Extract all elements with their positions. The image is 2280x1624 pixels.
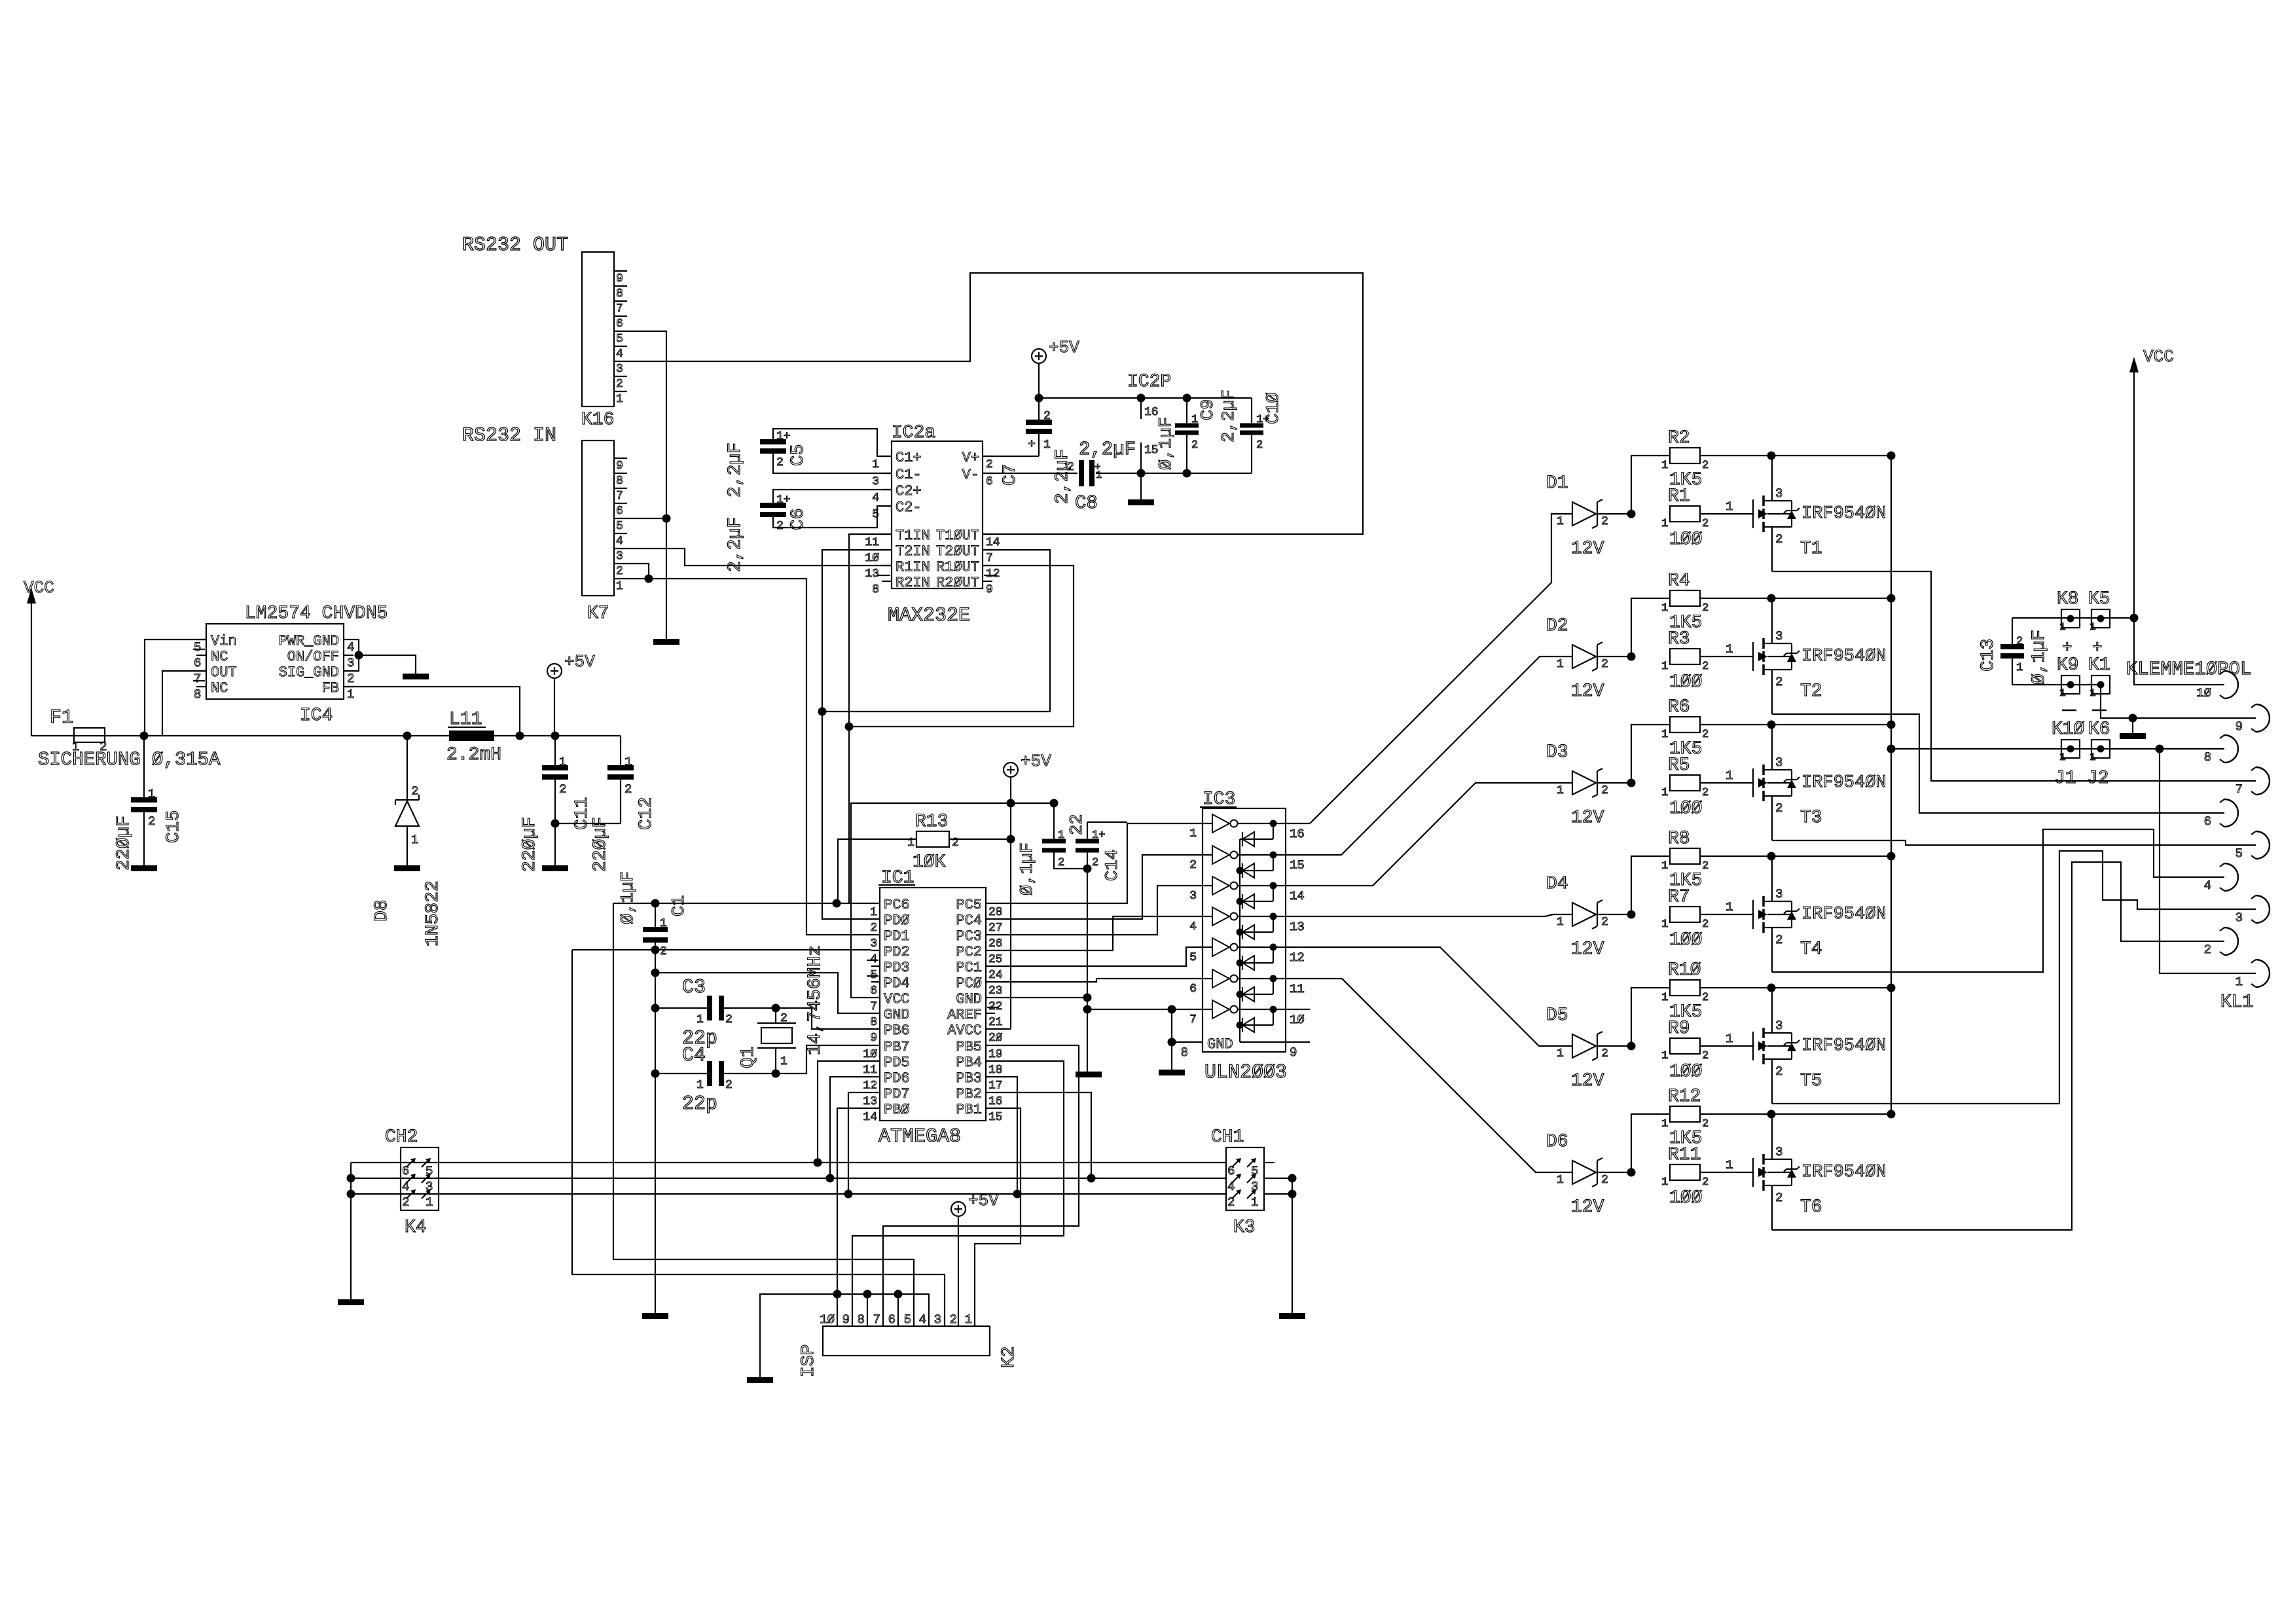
svg-text:R1: R1 bbox=[1668, 486, 1690, 507]
svg-text:1: 1 bbox=[1557, 784, 1564, 797]
svg-text:2,2µF: 2,2µF bbox=[1079, 439, 1136, 460]
wire K7 pin2 jog bbox=[627, 564, 649, 579]
svg-text:2: 2 bbox=[2016, 636, 2023, 648]
svg-text:PD3: PD3 bbox=[884, 960, 910, 976]
svg-text:IC4: IC4 bbox=[300, 706, 333, 726]
svg-text:1: 1 bbox=[660, 917, 667, 930]
inductor L11 2.2mH bbox=[449, 731, 494, 741]
transistor T2 IRF9540N bbox=[1752, 642, 1754, 671]
junction D5 cathode bbox=[1627, 1042, 1636, 1051]
svg-text:4: 4 bbox=[2204, 878, 2211, 893]
svg-text:1: 1 bbox=[1058, 829, 1064, 842]
svg-text:Ø,1µF: Ø,1µF bbox=[1018, 842, 1038, 895]
junction K6 row bbox=[2156, 745, 2164, 753]
svg-text:PB5: PB5 bbox=[956, 1039, 982, 1055]
svg-text:1: 1 bbox=[2059, 687, 2066, 699]
svg-text:2: 2 bbox=[1775, 933, 1782, 947]
IC4 left pins bbox=[196, 639, 206, 640]
svg-text:6: 6 bbox=[616, 505, 623, 518]
svg-text:6: 6 bbox=[888, 1312, 896, 1327]
wire fuse to node bbox=[105, 735, 144, 736]
svg-text:K9: K9 bbox=[2057, 655, 2079, 676]
wire K4 ground drop bbox=[350, 1163, 352, 1299]
junction +5V R13 bbox=[1007, 835, 1015, 844]
svg-text:12V: 12V bbox=[1571, 539, 1604, 559]
svg-text:+5V: +5V bbox=[564, 652, 595, 672]
svg-text:1ØØ: 1ØØ bbox=[1669, 799, 1702, 819]
wire to GND pin8 bbox=[655, 973, 871, 1013]
junction PB3 row bbox=[1013, 1190, 1022, 1199]
svg-text:OUT: OUT bbox=[211, 664, 237, 681]
svg-text:21: 21 bbox=[988, 1016, 1003, 1029]
svg-text:7: 7 bbox=[1189, 1013, 1197, 1026]
ground at IC4 bbox=[403, 674, 429, 679]
svg-text:4: 4 bbox=[616, 535, 623, 548]
svg-text:2: 2 bbox=[1601, 658, 1608, 671]
svg-text:9: 9 bbox=[616, 272, 623, 285]
svg-text:1Ø: 1Ø bbox=[2196, 686, 2211, 700]
wire C8 to GND junction bbox=[1096, 473, 1252, 474]
wire K4 row1 bbox=[351, 1162, 1226, 1163]
svg-text:IRF954ØN: IRF954ØN bbox=[1801, 905, 1887, 924]
svg-text:8: 8 bbox=[2204, 750, 2211, 765]
svg-text:2: 2 bbox=[1227, 1195, 1235, 1210]
svg-text:12V: 12V bbox=[1571, 681, 1604, 702]
solder pad K8 bbox=[2061, 609, 2080, 628]
wire PD5 to row1 bbox=[818, 1061, 871, 1163]
svg-text:LM2574 CHVDN5: LM2574 CHVDN5 bbox=[245, 604, 388, 624]
svg-text:1: 1 bbox=[1557, 658, 1564, 671]
K16 pins 9..1 bbox=[614, 270, 627, 272]
svg-text:6: 6 bbox=[402, 1164, 409, 1178]
ground below D8 bbox=[394, 865, 420, 871]
svg-text:ISP: ISP bbox=[799, 1344, 819, 1377]
junction GND22 bbox=[1083, 994, 1092, 1002]
svg-text:VCC: VCC bbox=[884, 991, 910, 1007]
wire PB0 to ISP pin10 bbox=[837, 1108, 871, 1294]
junction D4 cathode bbox=[1627, 911, 1636, 919]
svg-text:3: 3 bbox=[1775, 486, 1782, 501]
svg-text:D5: D5 bbox=[1546, 1005, 1568, 1026]
svg-text:12V: 12V bbox=[1571, 1197, 1604, 1218]
svg-text:1: 1 bbox=[1726, 499, 1733, 514]
svg-text:2: 2 bbox=[1092, 857, 1098, 869]
connector CH1 K3 box bbox=[1226, 1147, 1264, 1210]
MAX232 left pins bbox=[882, 456, 892, 457]
junction source node T6 bbox=[1767, 1110, 1776, 1119]
svg-text:8: 8 bbox=[858, 1312, 865, 1327]
ground below C11 bbox=[542, 865, 568, 871]
svg-text:1Ø: 1Ø bbox=[865, 552, 879, 565]
svg-text:K6: K6 bbox=[2088, 719, 2110, 740]
junction after L11 bbox=[516, 732, 524, 740]
wire ON/OFF to ground bbox=[359, 655, 416, 674]
wire AVCC bbox=[995, 1028, 1011, 1030]
zener diode D2 12V bbox=[1572, 645, 1596, 668]
svg-text:C5: C5 bbox=[788, 444, 808, 466]
wire OUT12 to D5 bbox=[1310, 947, 1553, 1046]
resistor R6 1K5 bbox=[1631, 725, 1670, 783]
svg-text:1: 1 bbox=[1661, 460, 1668, 472]
svg-text:3: 3 bbox=[872, 475, 879, 488]
junction C11 C12 bottom bbox=[551, 820, 560, 828]
wire PB2 to K3 row2 bbox=[995, 1092, 1091, 1178]
junction at +5V bbox=[551, 732, 560, 740]
wire K16 pin3 to MAX232 loop bbox=[627, 273, 1363, 534]
svg-text:12: 12 bbox=[863, 1079, 877, 1092]
svg-text:6: 6 bbox=[986, 475, 993, 488]
svg-text:3: 3 bbox=[1775, 1145, 1782, 1159]
svg-text:1: 1 bbox=[616, 393, 623, 406]
capacitor C4 22p bbox=[655, 1073, 710, 1074]
ground K3 bbox=[1279, 1313, 1305, 1319]
svg-text:4: 4 bbox=[1227, 1180, 1235, 1194]
capacitor C9 bbox=[1186, 398, 1187, 425]
svg-text:2: 2 bbox=[1702, 918, 1709, 931]
svg-text:3: 3 bbox=[934, 1312, 941, 1327]
svg-text:9: 9 bbox=[986, 583, 993, 596]
svg-text:R9: R9 bbox=[1668, 1019, 1690, 1039]
capacitor C13 0.1uF bbox=[2012, 618, 2013, 647]
svg-text:+5V: +5V bbox=[968, 1191, 999, 1210]
svg-text:Ø,1µF: Ø,1µF bbox=[619, 871, 638, 924]
svg-text:2: 2 bbox=[616, 378, 623, 391]
svg-text:3: 3 bbox=[425, 1180, 433, 1194]
wire V- to C8 bbox=[983, 473, 1077, 474]
wire T6 drain to KL1 pin2 bbox=[1772, 862, 2224, 1230]
capacitor C14 bbox=[1087, 822, 1088, 841]
ground IC3 bbox=[1159, 1070, 1185, 1075]
svg-text:1: 1 bbox=[1557, 1047, 1564, 1060]
solder pad K5 bbox=[2091, 609, 2110, 628]
svg-text:2: 2 bbox=[1601, 784, 1608, 797]
svg-text:VCC: VCC bbox=[2143, 347, 2174, 367]
junction PD6 row bbox=[826, 1174, 835, 1183]
junction C8 gnd bbox=[1137, 469, 1146, 478]
connector ISP K2 box bbox=[823, 1326, 990, 1356]
IC ATMEGA8 IC1 box bbox=[880, 888, 986, 1121]
svg-text:PWR_GND: PWR_GND bbox=[279, 633, 339, 649]
svg-text:2: 2 bbox=[1702, 787, 1709, 799]
svg-text:1: 1 bbox=[1726, 642, 1733, 657]
junction PB2 row bbox=[1087, 1174, 1096, 1183]
wire T2 drain to KL1 pin6 bbox=[1772, 714, 2224, 813]
wire ISP pin10 stub bbox=[837, 1294, 838, 1326]
svg-text:C3: C3 bbox=[682, 977, 706, 999]
svg-text:6: 6 bbox=[2204, 814, 2211, 829]
svg-text:2: 2 bbox=[1775, 1064, 1782, 1079]
svg-text:3: 3 bbox=[1775, 887, 1782, 901]
svg-text:17: 17 bbox=[988, 1079, 1003, 1092]
svg-text:16: 16 bbox=[1290, 827, 1305, 841]
IC ULN2003 IC3 box bbox=[1203, 808, 1286, 1052]
transistor T3 IRF9540N bbox=[1752, 768, 1754, 797]
svg-text:PC1: PC1 bbox=[956, 960, 982, 976]
svg-text:8: 8 bbox=[616, 287, 623, 300]
junction C1 bottom bbox=[651, 946, 660, 954]
svg-text:2: 2 bbox=[1702, 860, 1709, 873]
svg-text:5: 5 bbox=[1189, 951, 1197, 964]
svg-text:D8: D8 bbox=[372, 899, 392, 922]
svg-text:2: 2 bbox=[559, 782, 566, 797]
ground RS232 bbox=[653, 639, 679, 645]
svg-text:C4: C4 bbox=[682, 1045, 706, 1067]
svg-text:1: 1 bbox=[1661, 992, 1668, 1004]
svg-text:D1: D1 bbox=[1546, 473, 1568, 494]
svg-text:4: 4 bbox=[616, 348, 623, 361]
svg-text:7: 7 bbox=[986, 552, 993, 565]
junction D3 cathode bbox=[1627, 779, 1636, 787]
wire GND pin22 bbox=[995, 997, 1087, 998]
wire reset net to ISP pin5 bbox=[613, 903, 914, 1326]
svg-text:C1+: C1+ bbox=[896, 450, 922, 466]
resistor R5 100 bbox=[1670, 775, 1700, 791]
svg-text:5: 5 bbox=[872, 508, 879, 521]
svg-text:2: 2 bbox=[870, 922, 877, 935]
svg-text:4: 4 bbox=[919, 1312, 926, 1327]
svg-text:2: 2 bbox=[1043, 410, 1051, 423]
wire PWR_GND ON/OFF SIG_GND bbox=[353, 640, 359, 671]
ULN2003 freewheel diodes and COM bbox=[1240, 839, 1273, 840]
svg-text:1: 1 bbox=[616, 580, 623, 593]
zener diode D1 12V bbox=[1572, 502, 1596, 526]
svg-text:9: 9 bbox=[870, 1032, 877, 1045]
svg-text:14,7456MHz: 14,7456MHz bbox=[805, 945, 825, 1055]
svg-text:K8: K8 bbox=[2057, 589, 2079, 609]
wire T4 drain to KL1 pin4 bbox=[1772, 829, 2224, 972]
junction source node T3 bbox=[1767, 721, 1776, 729]
wire PB1 to ISP pin1 bbox=[975, 1108, 1021, 1326]
svg-text:MAX232E: MAX232E bbox=[888, 605, 970, 627]
wire ISP pin8 stub bbox=[867, 1294, 868, 1326]
svg-text:1: 1 bbox=[2090, 687, 2096, 699]
wire OUT14 to D3 bbox=[1310, 783, 1553, 886]
svg-text:12: 12 bbox=[1290, 950, 1305, 965]
IC MAX232E IC2a box bbox=[892, 441, 983, 588]
svg-text:R6: R6 bbox=[1668, 697, 1690, 717]
transistor T1 IRF9540N bbox=[1752, 499, 1754, 528]
svg-text:6: 6 bbox=[616, 317, 623, 331]
svg-text:C2-: C2- bbox=[896, 499, 922, 516]
svg-text:3: 3 bbox=[1189, 890, 1197, 903]
svg-text:R1Ø: R1Ø bbox=[1668, 960, 1701, 981]
svg-text:14: 14 bbox=[1290, 889, 1305, 903]
resistor R11 100 bbox=[1670, 1164, 1700, 1180]
ground below cap column bbox=[642, 1313, 668, 1319]
capacitor C5 2.2uF bbox=[760, 439, 786, 444]
+5V supply symbol (ATmega) bbox=[1004, 763, 1018, 777]
wire +5V rail to IC2P bbox=[1039, 397, 1252, 399]
svg-text:T2ØUT: T2ØUT bbox=[936, 543, 979, 560]
connector KL1 terminals bbox=[2224, 671, 2238, 698]
svg-text:R5: R5 bbox=[1668, 755, 1690, 776]
svg-text:27: 27 bbox=[988, 922, 1003, 935]
+5V supply symbol (main) bbox=[547, 664, 562, 678]
svg-text:C12: C12 bbox=[636, 797, 657, 830]
svg-text:26: 26 bbox=[988, 937, 1003, 950]
svg-text:6: 6 bbox=[194, 656, 201, 670]
svg-text:R8: R8 bbox=[1668, 829, 1690, 849]
svg-text:1ØK: 1ØK bbox=[913, 852, 946, 873]
IC regulator IC4 LM2574 box bbox=[206, 624, 344, 699]
wire K7 pin1 to PD1 net bbox=[627, 579, 871, 935]
svg-text:1Ø: 1Ø bbox=[820, 1312, 835, 1327]
wire PC1 to IN5 bbox=[995, 947, 1203, 966]
junction C2 top bbox=[1050, 799, 1059, 808]
junction source node T1 bbox=[1767, 452, 1776, 460]
junction IN7 at C14 gnd bbox=[1083, 1005, 1092, 1014]
svg-text:PC6: PC6 bbox=[884, 897, 910, 913]
wire OUT15 to D2 bbox=[1310, 657, 1553, 855]
svg-text:19: 19 bbox=[988, 1048, 1003, 1061]
svg-text:2: 2 bbox=[1601, 1174, 1608, 1187]
capacitor C7 2.2uF bbox=[1026, 420, 1052, 425]
svg-text:C6: C6 bbox=[788, 508, 808, 530]
svg-text:3: 3 bbox=[1775, 1019, 1782, 1033]
junction K3 gnd b bbox=[1288, 1190, 1297, 1199]
svg-text:13: 13 bbox=[1290, 920, 1305, 934]
svg-text:13: 13 bbox=[865, 568, 879, 581]
svg-text:7: 7 bbox=[616, 302, 623, 316]
svg-text:1Ø: 1Ø bbox=[863, 1048, 877, 1061]
svg-text:ULN2ØØ3: ULN2ØØ3 bbox=[1204, 1062, 1287, 1084]
wire IN7 gnd bbox=[1087, 1009, 1203, 1010]
svg-text:3: 3 bbox=[2235, 911, 2243, 925]
svg-text:K3: K3 bbox=[1233, 1218, 1256, 1238]
solder pad K9 bbox=[2061, 676, 2080, 694]
wire PD2 row bbox=[572, 949, 871, 950]
svg-text:2: 2 bbox=[1601, 1047, 1608, 1060]
wire PD6 to row2 bbox=[830, 1077, 871, 1178]
connector CH2 K4 box bbox=[401, 1147, 439, 1210]
svg-text:IRF954ØN: IRF954ØN bbox=[1801, 504, 1887, 524]
svg-text:R12: R12 bbox=[1668, 1087, 1701, 1107]
K4 pin arrows bbox=[407, 1159, 414, 1167]
svg-text:3: 3 bbox=[870, 937, 877, 950]
junction K7 pin5 bbox=[662, 514, 671, 523]
capacitor C10 bbox=[1251, 398, 1252, 425]
junction +5V VCC row bbox=[1007, 799, 1015, 808]
svg-text:+5V: +5V bbox=[1049, 338, 1079, 357]
svg-text:Ø,1µF: Ø,1µF bbox=[2029, 630, 2050, 685]
svg-text:T2: T2 bbox=[1800, 681, 1822, 702]
svg-text:RS232 OUT: RS232 OUT bbox=[462, 234, 568, 257]
svg-text:12: 12 bbox=[986, 568, 1000, 581]
wire T2IN vertical to PD0 bbox=[822, 550, 892, 919]
junction gnd col C3 bbox=[651, 1004, 660, 1013]
wire PB4 to ISP pin9 bbox=[852, 1061, 1064, 1326]
svg-text:D2: D2 bbox=[1546, 616, 1568, 636]
svg-text:K7: K7 bbox=[587, 604, 609, 624]
svg-text:4: 4 bbox=[402, 1180, 409, 1194]
svg-text:T6: T6 bbox=[1800, 1197, 1822, 1218]
svg-text:1: 1 bbox=[872, 458, 879, 471]
svg-text:IRF954ØN: IRF954ØN bbox=[1801, 1163, 1887, 1182]
svg-text:2,2µF: 2,2µF bbox=[725, 442, 746, 497]
junction K3 gnd a bbox=[1288, 1174, 1297, 1183]
junction C9 bottom bbox=[1183, 469, 1191, 478]
junction K4 gnd row3 bbox=[347, 1190, 355, 1199]
resistor R13 10K bbox=[916, 831, 949, 847]
svg-text:4: 4 bbox=[872, 492, 879, 505]
svg-text:Vin: Vin bbox=[211, 633, 237, 649]
svg-text:IC2P: IC2P bbox=[1127, 372, 1171, 392]
wire K16 pin5 ground net bbox=[627, 331, 666, 639]
node junction at C15 bbox=[140, 732, 149, 740]
svg-text:28: 28 bbox=[988, 906, 1003, 919]
svg-text:FB: FB bbox=[322, 680, 339, 696]
svg-text:23: 23 bbox=[988, 984, 1003, 998]
svg-text:2: 2 bbox=[780, 1012, 787, 1025]
capacitor C11 220uF bbox=[554, 736, 556, 768]
ULN2003 output stubs bbox=[1286, 823, 1310, 824]
junction source node T2 bbox=[1767, 594, 1776, 603]
svg-text:T1IN: T1IN bbox=[896, 528, 930, 544]
svg-text:2: 2 bbox=[624, 782, 632, 797]
svg-text:5: 5 bbox=[616, 520, 623, 533]
svg-text:1: 1 bbox=[1189, 827, 1197, 840]
junction R1OUT loop bbox=[845, 723, 854, 731]
svg-text:V+: V+ bbox=[962, 450, 979, 466]
svg-text:2: 2 bbox=[725, 1013, 733, 1026]
svg-text:+5V: +5V bbox=[1021, 751, 1051, 771]
wire K4 row3 bbox=[351, 1193, 1226, 1195]
svg-text:RS232 IN: RS232 IN bbox=[462, 425, 556, 447]
capacitor C15 220uF bbox=[143, 736, 145, 800]
svg-text:1: 1 bbox=[411, 833, 418, 847]
svg-text:2: 2 bbox=[725, 1079, 733, 1092]
svg-text:2: 2 bbox=[1775, 801, 1782, 816]
junction gnd col C4 bbox=[651, 1070, 660, 1078]
svg-text:11: 11 bbox=[865, 536, 879, 549]
svg-text:1Ø: 1Ø bbox=[1290, 1013, 1305, 1027]
connector K16 bbox=[582, 252, 614, 406]
svg-text:1: 1 bbox=[1661, 602, 1668, 615]
svg-text:2: 2 bbox=[776, 456, 784, 469]
svg-text:3: 3 bbox=[1251, 1180, 1258, 1194]
ground right bbox=[2132, 718, 2133, 733]
svg-text:2: 2 bbox=[148, 814, 155, 829]
svg-text:2: 2 bbox=[616, 565, 623, 578]
svg-text:1: 1 bbox=[1557, 916, 1564, 929]
svg-text:12V: 12V bbox=[1571, 939, 1604, 960]
svg-text:1: 1 bbox=[1726, 768, 1733, 783]
svg-text:SICHERUNG Ø,315A: SICHERUNG Ø,315A bbox=[38, 749, 221, 770]
ground K4 bbox=[338, 1299, 364, 1305]
svg-text:PB6: PB6 bbox=[884, 1022, 910, 1039]
junction C14 bottom bbox=[1083, 865, 1092, 873]
svg-text:16: 16 bbox=[988, 1095, 1003, 1108]
svg-text:1: 1 bbox=[1726, 1158, 1733, 1172]
svg-text:K2: K2 bbox=[999, 1346, 1019, 1368]
svg-text:15: 15 bbox=[1290, 858, 1305, 873]
wire VCC source bus vertical bbox=[1891, 456, 1892, 1114]
svg-text:PC4: PC4 bbox=[956, 912, 982, 929]
wire PC0 to IN6 bbox=[995, 979, 1203, 982]
diode D8 1N5822 bbox=[407, 736, 408, 800]
svg-text:9: 9 bbox=[2235, 719, 2243, 734]
svg-text:VCC: VCC bbox=[24, 578, 54, 598]
svg-text:1: 1 bbox=[1661, 518, 1668, 530]
svg-text:18: 18 bbox=[988, 1064, 1003, 1077]
svg-text:1ØØ: 1ØØ bbox=[1669, 1062, 1702, 1082]
svg-text:1: 1 bbox=[148, 787, 155, 801]
svg-text:2: 2 bbox=[1775, 1191, 1782, 1205]
wire K7 pin3 to R1IN bbox=[627, 549, 892, 566]
wire K4 row2 bbox=[351, 1178, 1226, 1179]
svg-text:+: + bbox=[1028, 437, 1036, 452]
K3 right stubs bbox=[1264, 1162, 1275, 1163]
